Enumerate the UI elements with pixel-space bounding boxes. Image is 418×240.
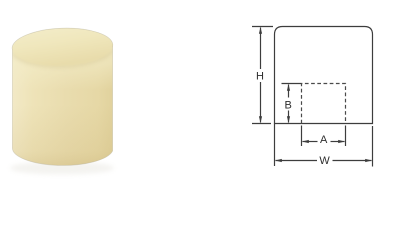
svg-text:W: W: [319, 155, 330, 167]
svg-text:A: A: [320, 134, 328, 146]
svg-text:B: B: [285, 99, 292, 111]
svg-text:H: H: [256, 70, 264, 82]
